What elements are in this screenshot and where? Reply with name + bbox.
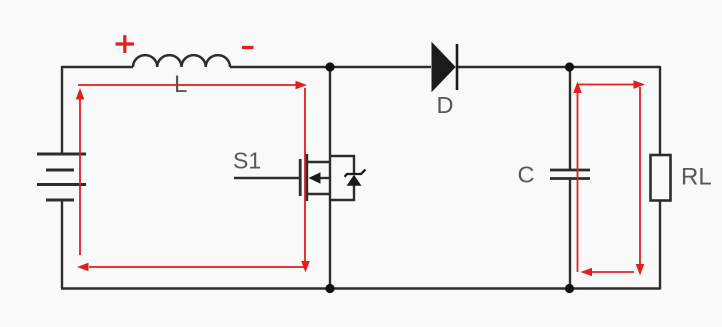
transistor S1 source tap [307, 193, 330, 195]
red loop 1 left vertical (current arrow up) [79, 97, 81, 255]
wire: top-left from corner to inductor [62, 66, 133, 68]
body-diode zener cathode bar [345, 170, 366, 177]
wire: top rail from inductor to diode [230, 66, 431, 68]
red loop 2 left vertical (current arrow up) [577, 93, 579, 272]
transistor S1 drain tap [307, 161, 330, 163]
label - (red) [242, 46, 254, 49]
red loop 1 right vertical (current arrow down) [304, 88, 306, 261]
junction node: top drain [325, 62, 334, 71]
resistor RL body [651, 155, 671, 201]
red loop 1 top horizontal (current arrow right) [78, 84, 296, 86]
label + (red) [116, 35, 135, 53]
junction node: bottom source [325, 284, 334, 293]
red loop 2 bottom horizontal (current arrow left) [592, 271, 634, 273]
red loop 2 right vertical (current arrow down) [639, 87, 641, 264]
wire: right vertical lower (RL to bottom corner) [659, 201, 661, 290]
transistor S1 body arrow tap [318, 177, 330, 179]
capacitor wire upper [569, 67, 571, 170]
battery (source) plates [37, 154, 86, 200]
transistor S1 channel bar [305, 154, 308, 201]
svg-text:RL: RL [681, 164, 712, 191]
wire: top rail from diode to right corner [457, 66, 660, 68]
transistor S1 main vertical (drain-source bus) [329, 67, 331, 289]
wire: bottom rail [61, 287, 660, 289]
body-diode branch top [330, 156, 354, 174]
transistor S1 body arrowhead [309, 172, 321, 183]
transistor S1 gate bar [299, 159, 302, 196]
svg-text:C: C [518, 162, 535, 188]
capacitor C bottom plate [550, 177, 590, 180]
wire: left vertical upper (corner to battery) [61, 66, 63, 154]
body-diode triangle [347, 175, 362, 186]
red loop 1 bottom horizontal (current arrow left) [89, 266, 304, 268]
diode D triangle [432, 43, 455, 91]
junction node: bottom capacitor [565, 284, 574, 293]
diode D cathode bar [456, 44, 459, 90]
wire: left vertical lower (battery to bottom corner) [61, 200, 63, 289]
wire: right vertical upper (corner to RL) [659, 66, 661, 155]
transistor S1 gate wire [234, 177, 299, 179]
capacitor wire lower [569, 179, 571, 290]
capacitor C top plate [550, 169, 590, 172]
body-diode branch bottom [330, 185, 354, 200]
svg-text:D: D [437, 92, 454, 118]
junction node: top capacitor [565, 62, 574, 71]
svg-text:S1: S1 [233, 148, 261, 174]
red loop 2 top horizontal (current arrow right) [578, 84, 635, 86]
inductor L (4 humps) [133, 55, 230, 67]
